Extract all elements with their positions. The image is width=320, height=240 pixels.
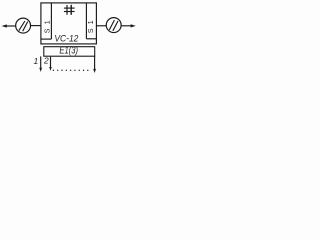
tributary 1 arrow [40,56,42,68]
right line-interface circle [106,18,121,33]
port column S1 left : bottom edge [41,38,52,40]
svg-text:E1(3): E1(3) [59,46,78,57]
left circle slash 1 [19,21,25,31]
svg-text:VC-12: VC-12 [54,33,79,44]
right circle slash 1 [109,20,114,30]
port column S1 left : divider [50,3,52,39]
tributary n arrow [94,56,96,70]
svg-text:1: 1 [33,56,38,66]
right circle slash 2 [113,21,118,31]
ellipsis dots [53,70,89,71]
equipment box VC-12 [41,3,97,44]
hash symbol vertical 1 [66,5,68,15]
left circle slash 2 [23,22,28,32]
output arrow [131,24,136,27]
svg-text:S1: S1 [44,20,51,33]
wire [121,25,131,27]
hash symbol crossbar 2 [64,11,75,13]
wire [6,25,16,27]
port column S1 right : divider [85,3,87,39]
tributary box E1(3) [44,47,95,57]
hash symbol vertical 2 [70,5,72,15]
input arrow [2,24,16,27]
port column S1 right : bottom edge [86,38,96,40]
svg-text:S1: S1 [88,20,95,33]
left line-interface circle [16,18,31,33]
wire [31,25,41,27]
svg-text:2: 2 [43,56,49,66]
tributary 2 arrow [50,57,52,68]
hash symbol crossbar 1 [64,7,75,9]
wire [96,25,106,27]
